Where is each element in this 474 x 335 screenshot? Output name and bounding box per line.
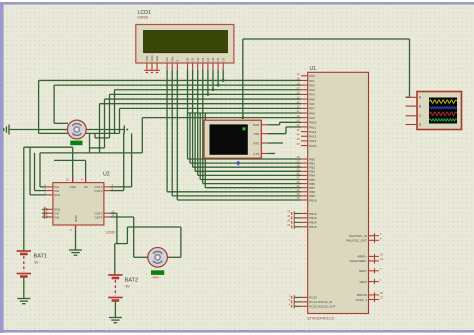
- svg-text:TXD: TXD: [253, 132, 260, 136]
- svg-text:PH0/OSC_IN: PH0/OSC_IN: [349, 234, 367, 238]
- svg-text:BOOT0: BOOT0: [357, 293, 368, 297]
- svg-text:PB13: PB13: [309, 216, 317, 220]
- svg-text:E: E: [175, 60, 179, 62]
- svg-text:PA1: PA1: [309, 79, 315, 83]
- svg-text:PC14-OSC32_IN: PC14-OSC32_IN: [309, 300, 332, 304]
- svg-text:PA8: PA8: [309, 111, 315, 115]
- svg-text:B: B: [419, 105, 421, 109]
- svg-text:PA13: PA13: [309, 135, 316, 139]
- svg-text:PA14: PA14: [309, 139, 316, 143]
- svg-text:PA4: PA4: [309, 93, 315, 97]
- svg-text:PH1/OSC_OUT: PH1/OSC_OUT: [346, 239, 367, 243]
- svg-text:PA12: PA12: [309, 130, 316, 134]
- svg-text:PA6: PA6: [309, 102, 315, 106]
- svg-text:PA9: PA9: [309, 116, 315, 120]
- svg-text:PC13: PC13: [309, 296, 317, 300]
- svg-text:U2: U2: [103, 172, 110, 178]
- svg-text:PA15: PA15: [309, 144, 316, 148]
- svg-text:NRST: NRST: [359, 269, 367, 273]
- svg-text:CTS: CTS: [253, 152, 259, 156]
- svg-text:VREF+: VREF+: [357, 255, 367, 259]
- svg-text:PA7: PA7: [309, 107, 315, 111]
- svg-text:VBAT: VBAT: [359, 280, 367, 284]
- svg-text:RW: RW: [170, 56, 174, 61]
- svg-text:PB14: PB14: [309, 221, 317, 225]
- svg-text:GND: GND: [74, 215, 78, 223]
- svg-text:VSSA/VREF-: VSSA/VREF-: [349, 259, 367, 263]
- svg-text:L293D: L293D: [106, 231, 116, 235]
- svg-text:PA2: PA2: [309, 83, 315, 87]
- svg-text:+RPM: +RPM: [152, 276, 159, 280]
- svg-text:RS: RS: [165, 57, 169, 61]
- svg-text:STM32F401CC: STM32F401CC: [307, 316, 335, 321]
- svg-text:D2: D2: [196, 57, 200, 61]
- svg-text:U1: U1: [310, 66, 317, 72]
- svg-text:VDD: VDD: [150, 55, 154, 61]
- svg-text:D3: D3: [201, 57, 205, 61]
- svg-text:LM016L: LM016L: [138, 16, 150, 20]
- svg-text:PA5: PA5: [309, 97, 315, 101]
- svg-text:IN4: IN4: [54, 215, 59, 219]
- svg-text:OUT2: OUT2: [94, 189, 102, 193]
- svg-text:EN1: EN1: [54, 193, 60, 197]
- svg-text:PB10: PB10: [309, 198, 317, 202]
- svg-text:D0: D0: [186, 57, 190, 61]
- svg-text:8V: 8V: [35, 261, 40, 265]
- svg-text:PA3: PA3: [309, 88, 315, 92]
- svg-text:VS: VS: [84, 185, 88, 189]
- svg-text:PA11: PA11: [309, 125, 316, 129]
- svg-text:VSS: VSS: [145, 56, 149, 62]
- svg-text:VEE: VEE: [155, 56, 159, 62]
- svg-text:D7: D7: [221, 57, 225, 61]
- svg-text:D4: D4: [206, 57, 210, 61]
- svg-text:PB12: PB12: [309, 212, 317, 216]
- svg-text:PB15: PB15: [309, 225, 317, 229]
- svg-text:RTS: RTS: [253, 141, 259, 145]
- svg-text:PC15-OSC32_OUT: PC15-OSC32_OUT: [309, 305, 336, 309]
- svg-text:RXD: RXD: [253, 123, 260, 127]
- svg-text:D6: D6: [216, 57, 220, 61]
- svg-text:PA0: PA0: [309, 74, 315, 78]
- svg-text:D5: D5: [211, 57, 215, 61]
- svg-text:8V: 8V: [126, 285, 131, 289]
- svg-text:VCAP_1: VCAP_1: [355, 298, 367, 302]
- svg-text:PA10: PA10: [309, 121, 316, 125]
- svg-text:BAT1: BAT1: [34, 254, 48, 260]
- svg-text:VSS: VSS: [70, 185, 76, 189]
- svg-text:OUT4: OUT4: [94, 215, 102, 219]
- svg-text:BAT2: BAT2: [125, 278, 139, 284]
- svg-text:D1: D1: [191, 57, 195, 61]
